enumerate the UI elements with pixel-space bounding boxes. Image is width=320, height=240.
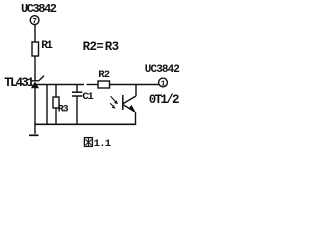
svg-text:UC3842: UC3842 — [21, 2, 57, 16]
svg-text:R3: R3 — [58, 104, 69, 115]
svg-text:1: 1 — [105, 138, 111, 150]
svg-text:TL431: TL431 — [4, 76, 34, 90]
svg-text:1: 1 — [161, 80, 166, 88]
svg-text:R1: R1 — [41, 40, 53, 52]
svg-text:1.: 1. — [94, 138, 105, 150]
svg-text:7: 7 — [32, 18, 37, 26]
svg-text:0T1/2: 0T1/2 — [149, 93, 179, 107]
svg-text:UC3842: UC3842 — [145, 64, 180, 76]
svg-text:R3: R3 — [105, 40, 119, 54]
svg-text:R2: R2 — [98, 69, 110, 81]
svg-text:R2=: R2= — [83, 40, 104, 54]
svg-text:C1: C1 — [82, 91, 93, 103]
